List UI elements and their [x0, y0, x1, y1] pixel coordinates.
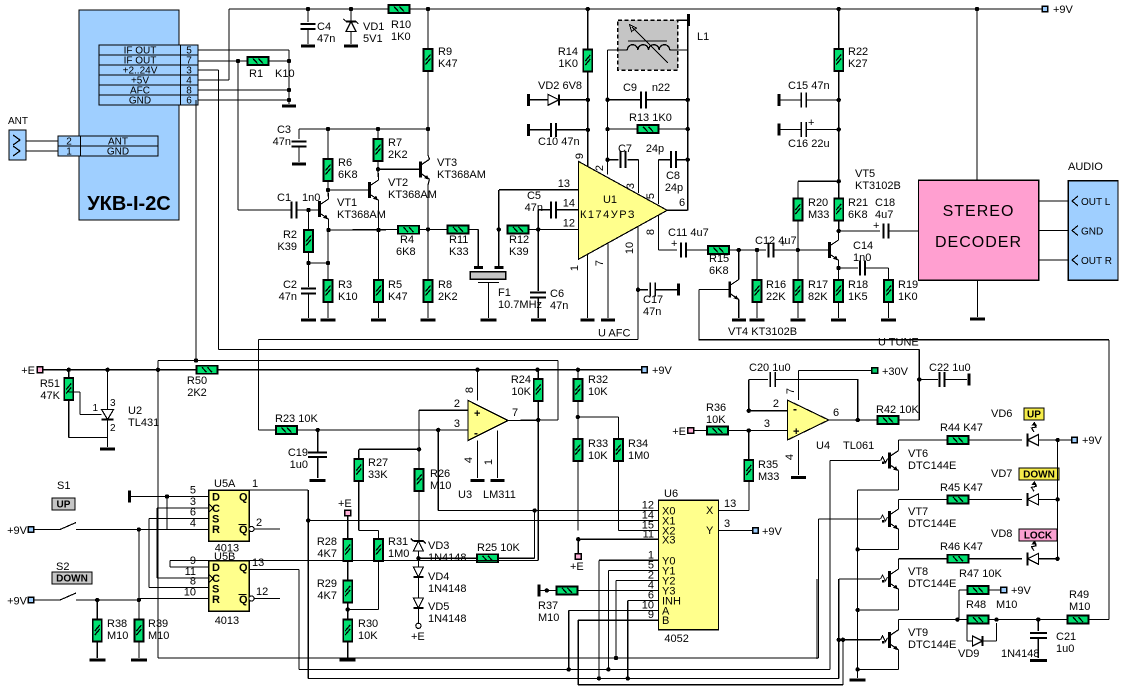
svg-text:n22: n22 — [652, 82, 670, 94]
svg-text:R9: R9 — [438, 46, 452, 58]
svg-text:OUT R: OUT R — [1081, 256, 1112, 267]
svg-text:1: 1 — [569, 265, 581, 271]
svg-text:VT4 KT3102B: VT4 KT3102B — [728, 326, 797, 338]
svg-text:LOCK: LOCK — [1024, 531, 1053, 542]
svg-text:3: 3 — [724, 518, 730, 530]
svg-text:U6: U6 — [664, 488, 678, 500]
svg-text:R25 10K: R25 10K — [477, 542, 520, 554]
svg-text:1K0: 1K0 — [898, 291, 918, 303]
svg-text:6K8: 6K8 — [396, 246, 416, 258]
svg-text:R37: R37 — [538, 600, 558, 612]
svg-text:C19: C19 — [288, 447, 308, 459]
svg-text:S1: S1 — [57, 480, 70, 492]
svg-text:47K: 47K — [40, 390, 60, 402]
svg-text:1: 1 — [483, 459, 495, 465]
svg-text:C15 47n: C15 47n — [788, 80, 830, 92]
svg-text:K33: K33 — [449, 246, 469, 258]
svg-text:1N4148: 1N4148 — [428, 583, 467, 595]
svg-text:LM311: LM311 — [483, 489, 516, 501]
svg-text:+9V: +9V — [7, 596, 28, 608]
svg-text:R20: R20 — [808, 197, 828, 209]
svg-text:R36: R36 — [706, 402, 726, 414]
svg-text:OUT L: OUT L — [1081, 197, 1111, 208]
svg-text:2: 2 — [594, 165, 606, 171]
svg-text:10K: 10K — [588, 450, 608, 462]
svg-text:C16 22u: C16 22u — [788, 138, 830, 150]
svg-text:+E: +E — [570, 561, 584, 573]
svg-text:7: 7 — [594, 260, 606, 266]
svg-text:3: 3 — [764, 418, 770, 430]
svg-text:1K0: 1K0 — [391, 31, 411, 43]
svg-text:R8: R8 — [438, 279, 452, 291]
svg-text:R47 10K: R47 10K — [959, 568, 1002, 580]
svg-text:47n: 47n — [525, 202, 543, 214]
svg-text:R45 K47: R45 K47 — [940, 482, 983, 494]
svg-text:4052: 4052 — [664, 633, 688, 645]
svg-text:-: - — [793, 402, 797, 416]
svg-text:10: 10 — [184, 587, 196, 599]
svg-text:C9: C9 — [623, 82, 637, 94]
svg-text:C22 1u0: C22 1u0 — [929, 362, 971, 374]
svg-text:+9V: +9V — [652, 365, 673, 377]
svg-text:M10: M10 — [996, 599, 1017, 611]
svg-text:DTC144E: DTC144E — [908, 578, 956, 590]
svg-text:33K: 33K — [368, 469, 388, 481]
svg-text:K39: K39 — [509, 246, 529, 258]
svg-text:VD1: VD1 — [363, 21, 384, 33]
svg-text:R28: R28 — [317, 536, 337, 548]
svg-text:U4: U4 — [816, 440, 830, 452]
svg-text:7: 7 — [512, 407, 518, 419]
svg-text:K39: K39 — [277, 241, 297, 253]
svg-text:U5A: U5A — [214, 478, 236, 490]
svg-text:R: R — [212, 594, 220, 606]
svg-text:VT2: VT2 — [388, 177, 408, 189]
svg-text:13: 13 — [724, 498, 736, 510]
svg-text:DTC144E: DTC144E — [908, 518, 956, 530]
svg-text:+9V: +9V — [1053, 4, 1074, 16]
svg-text:24p: 24p — [646, 143, 664, 155]
svg-text:C4: C4 — [317, 21, 331, 33]
svg-text:7: 7 — [785, 388, 797, 394]
svg-text:8: 8 — [464, 387, 476, 393]
svg-text:C8: C8 — [666, 170, 680, 182]
svg-text:47n: 47n — [279, 291, 297, 303]
svg-text:GND: GND — [107, 147, 129, 158]
svg-text:M10: M10 — [148, 630, 169, 642]
svg-text:VT9: VT9 — [908, 627, 928, 639]
svg-text:4K7: 4K7 — [317, 548, 337, 560]
svg-text:C1: C1 — [277, 192, 291, 204]
svg-text:R34: R34 — [628, 438, 648, 450]
svg-text:+: + — [780, 239, 786, 250]
svg-text:VD5: VD5 — [428, 601, 449, 613]
svg-text:VT1: VT1 — [337, 197, 357, 209]
svg-text:VT8: VT8 — [908, 566, 928, 578]
svg-text:12: 12 — [563, 218, 575, 230]
svg-text:+9V: +9V — [762, 526, 783, 538]
svg-text:C10 47n: C10 47n — [538, 136, 580, 148]
svg-text:1: 1 — [92, 403, 98, 414]
svg-text:M10: M10 — [538, 612, 559, 624]
svg-text:10: 10 — [624, 242, 636, 254]
svg-text:R5: R5 — [388, 279, 402, 291]
svg-text:VD7: VD7 — [991, 468, 1012, 480]
svg-text:1n0: 1n0 — [302, 192, 320, 204]
svg-text:R38: R38 — [107, 618, 127, 630]
svg-text:1u0: 1u0 — [290, 459, 308, 471]
svg-text:R44 K47: R44 K47 — [940, 422, 983, 434]
svg-text:DTC144E: DTC144E — [908, 460, 956, 472]
svg-text:R39: R39 — [148, 618, 168, 630]
svg-text:U2: U2 — [128, 405, 142, 417]
svg-text:R46 K47: R46 K47 — [940, 541, 983, 553]
svg-text:8: 8 — [645, 229, 657, 235]
svg-text:R14: R14 — [558, 46, 578, 58]
svg-text:+9V: +9V — [1011, 585, 1032, 597]
svg-text:ANT: ANT — [8, 116, 28, 127]
svg-text:+E: +E — [411, 631, 425, 643]
svg-text:M10: M10 — [1069, 601, 1090, 613]
svg-text:+E: +E — [338, 498, 352, 510]
svg-text:R17: R17 — [808, 279, 828, 291]
svg-text:R51: R51 — [40, 378, 60, 390]
svg-text:L1: L1 — [697, 31, 709, 43]
svg-text:VT5: VT5 — [855, 168, 875, 180]
svg-text:R29: R29 — [317, 578, 337, 590]
svg-text:C20 1u0: C20 1u0 — [749, 362, 791, 374]
svg-text:R33: R33 — [588, 438, 608, 450]
svg-text:22K: 22K — [766, 291, 786, 303]
svg-text:VT3: VT3 — [437, 157, 457, 169]
svg-text:K10: K10 — [338, 291, 358, 303]
svg-text:R32: R32 — [588, 374, 608, 386]
svg-text:VT7: VT7 — [908, 506, 928, 518]
svg-text:AUDIO: AUDIO — [1068, 161, 1103, 173]
svg-text:10K: 10K — [511, 386, 531, 398]
svg-text:Q: Q — [239, 594, 248, 606]
svg-text:1M0: 1M0 — [628, 450, 649, 462]
svg-text:U3: U3 — [458, 489, 472, 501]
svg-text:R16: R16 — [766, 279, 786, 291]
svg-text:C7: C7 — [618, 143, 632, 155]
svg-text:X: X — [706, 505, 714, 517]
svg-text:Q: Q — [239, 562, 248, 574]
svg-text:R11: R11 — [449, 234, 468, 246]
svg-text:K47: K47 — [388, 291, 408, 303]
svg-text:4: 4 — [784, 454, 796, 460]
svg-text:5V1: 5V1 — [363, 33, 383, 45]
svg-text:F1: F1 — [498, 287, 511, 299]
svg-text:C5: C5 — [527, 190, 541, 202]
svg-text:+E: +E — [672, 426, 686, 438]
svg-text:+: + — [671, 238, 677, 250]
svg-text:Q: Q — [239, 492, 248, 504]
svg-text:R3: R3 — [338, 279, 352, 291]
svg-text:1K5: 1K5 — [848, 291, 868, 303]
svg-text:R21: R21 — [848, 197, 868, 209]
svg-text:B: B — [662, 615, 669, 627]
svg-text:C3: C3 — [277, 124, 291, 136]
svg-text:R24: R24 — [511, 374, 531, 386]
svg-text:UP: UP — [57, 500, 71, 511]
svg-text:M33: M33 — [808, 209, 829, 221]
svg-text:+9V: +9V — [7, 525, 28, 537]
svg-text:X3: X3 — [662, 534, 675, 546]
svg-text:U AFC: U AFC — [598, 328, 630, 340]
svg-text:C21: C21 — [1056, 631, 1076, 643]
svg-text:2K2: 2K2 — [388, 149, 408, 161]
svg-text:6K8: 6K8 — [848, 209, 868, 221]
svg-text:1u0: 1u0 — [1056, 643, 1074, 655]
svg-text:R13 1K0: R13 1K0 — [629, 112, 672, 124]
svg-text:DECODER: DECODER — [935, 234, 1022, 251]
svg-text:6: 6 — [186, 96, 192, 107]
svg-text:R50: R50 — [187, 375, 207, 387]
svg-text:47n: 47n — [273, 136, 291, 148]
svg-text:14: 14 — [563, 198, 575, 210]
svg-text:6K8: 6K8 — [709, 265, 729, 277]
svg-text:1K0: 1K0 — [558, 58, 578, 70]
svg-text:R4: R4 — [400, 234, 414, 246]
svg-text:10K: 10K — [358, 630, 378, 642]
svg-text:2: 2 — [773, 398, 779, 410]
svg-text:47n: 47n — [550, 300, 568, 312]
svg-text:4: 4 — [190, 518, 196, 530]
svg-text:9: 9 — [574, 153, 586, 159]
svg-text:6: 6 — [679, 197, 685, 209]
svg-text:R: R — [212, 524, 220, 536]
svg-text:5: 5 — [645, 193, 657, 199]
svg-text:10.7MHz: 10.7MHz — [498, 299, 542, 311]
svg-text:+: + — [808, 117, 814, 129]
svg-text:13: 13 — [252, 557, 264, 569]
svg-text:3: 3 — [625, 183, 637, 189]
svg-text:R22: R22 — [848, 46, 868, 58]
svg-text:3: 3 — [454, 418, 460, 430]
svg-text:R42 10K: R42 10K — [876, 404, 919, 416]
svg-text:Q: Q — [239, 524, 248, 536]
svg-text:C18: C18 — [875, 197, 895, 209]
svg-text:R26: R26 — [430, 468, 450, 480]
svg-text:M10: M10 — [107, 630, 128, 642]
svg-text:2: 2 — [256, 517, 262, 529]
svg-text:VD3: VD3 — [428, 540, 449, 552]
svg-text:5: 5 — [190, 485, 196, 497]
svg-text:3: 3 — [110, 398, 116, 409]
svg-text:6K8: 6K8 — [338, 169, 358, 181]
svg-text:4: 4 — [463, 457, 475, 463]
svg-text:1M0: 1M0 — [388, 548, 409, 560]
svg-text:VD6: VD6 — [991, 408, 1012, 420]
svg-text:4013: 4013 — [215, 615, 239, 627]
svg-text:C14: C14 — [853, 240, 873, 252]
svg-text:R48: R48 — [966, 599, 986, 611]
svg-text:13: 13 — [558, 178, 570, 190]
svg-text:УКВ-I-2С: УКВ-I-2С — [87, 193, 171, 215]
svg-text:2: 2 — [454, 398, 460, 410]
svg-text:C12 4u7: C12 4u7 — [755, 235, 797, 247]
svg-text:4K7: 4K7 — [317, 590, 337, 602]
svg-text:+: + — [793, 426, 799, 438]
svg-text:R1: R1 — [249, 68, 263, 80]
svg-text:VD4: VD4 — [428, 571, 449, 583]
svg-text:R35: R35 — [758, 459, 778, 471]
svg-text:1: 1 — [252, 478, 258, 490]
svg-text:2: 2 — [110, 423, 116, 434]
svg-text:2K2: 2K2 — [187, 387, 207, 399]
svg-text:1: 1 — [66, 147, 72, 158]
svg-text:47n: 47n — [643, 306, 661, 318]
svg-text:C17: C17 — [643, 294, 663, 306]
svg-text:GND: GND — [1081, 227, 1103, 238]
svg-text:+30V: +30V — [882, 366, 909, 378]
svg-text:S2: S2 — [56, 561, 69, 573]
svg-text:Y: Y — [706, 525, 714, 537]
svg-text:R15: R15 — [709, 253, 729, 265]
svg-text:KT3102B: KT3102B — [855, 180, 901, 192]
svg-text:R30: R30 — [358, 618, 378, 630]
svg-text:R6: R6 — [338, 157, 352, 169]
svg-text:VT6: VT6 — [908, 448, 928, 460]
svg-text:R18: R18 — [848, 279, 868, 291]
svg-text:C2: C2 — [283, 279, 297, 291]
svg-text:K47: K47 — [438, 58, 458, 70]
svg-text:+E: +E — [21, 365, 35, 377]
svg-text:К174УРЗ: К174УРЗ — [580, 209, 636, 221]
svg-text:+: + — [873, 220, 879, 232]
svg-text:M10: M10 — [430, 480, 451, 492]
svg-text:M33: M33 — [758, 471, 779, 483]
svg-text:R12: R12 — [509, 234, 529, 246]
svg-text:R19: R19 — [898, 279, 918, 291]
svg-text:R23 10K: R23 10K — [275, 413, 318, 425]
svg-text:K27: K27 — [848, 58, 868, 70]
svg-text:24p: 24p — [665, 182, 683, 194]
svg-text:U TUNE: U TUNE — [878, 337, 919, 349]
svg-text:2K2: 2K2 — [438, 291, 458, 303]
svg-text:47n: 47n — [317, 33, 335, 45]
svg-text:KT368AM: KT368AM — [437, 169, 486, 181]
svg-text:UP: UP — [1027, 410, 1041, 421]
svg-text:D: D — [212, 492, 220, 504]
svg-text:K10: K10 — [275, 68, 295, 80]
svg-text:R7: R7 — [388, 137, 402, 149]
svg-text:GND: GND — [129, 96, 151, 107]
svg-text:DTC144E: DTC144E — [908, 639, 956, 651]
svg-text:R10: R10 — [391, 19, 411, 31]
svg-text:R27: R27 — [368, 457, 388, 469]
svg-text:R49: R49 — [1069, 589, 1089, 601]
svg-text:1N4148: 1N4148 — [428, 613, 467, 625]
svg-text:DOWN: DOWN — [1023, 470, 1055, 481]
svg-text:-: - — [474, 426, 478, 440]
svg-text:TL061: TL061 — [843, 440, 874, 452]
svg-text:VD2 6V8: VD2 6V8 — [538, 80, 582, 92]
svg-text:10K: 10K — [588, 386, 608, 398]
svg-text:R31: R31 — [388, 536, 408, 548]
svg-text:DOWN: DOWN — [56, 574, 88, 585]
svg-text:6: 6 — [833, 407, 839, 419]
svg-text:12: 12 — [256, 586, 268, 598]
svg-text:KT368AM: KT368AM — [388, 189, 437, 201]
svg-text:82K: 82K — [808, 291, 828, 303]
svg-text:STEREO: STEREO — [943, 203, 1015, 220]
svg-text:1n0: 1n0 — [853, 252, 871, 264]
svg-text:VD8: VD8 — [991, 528, 1012, 540]
svg-text:10K: 10K — [706, 414, 726, 426]
svg-text:VD9: VD9 — [958, 648, 979, 660]
svg-text:U1: U1 — [603, 194, 617, 206]
svg-text:1N4148: 1N4148 — [1001, 648, 1040, 660]
svg-text:TL431: TL431 — [128, 417, 159, 429]
svg-text:+: + — [474, 408, 480, 420]
svg-text:C6: C6 — [550, 288, 564, 300]
svg-text:+9V: +9V — [1082, 435, 1103, 447]
svg-text:R2: R2 — [283, 229, 297, 241]
